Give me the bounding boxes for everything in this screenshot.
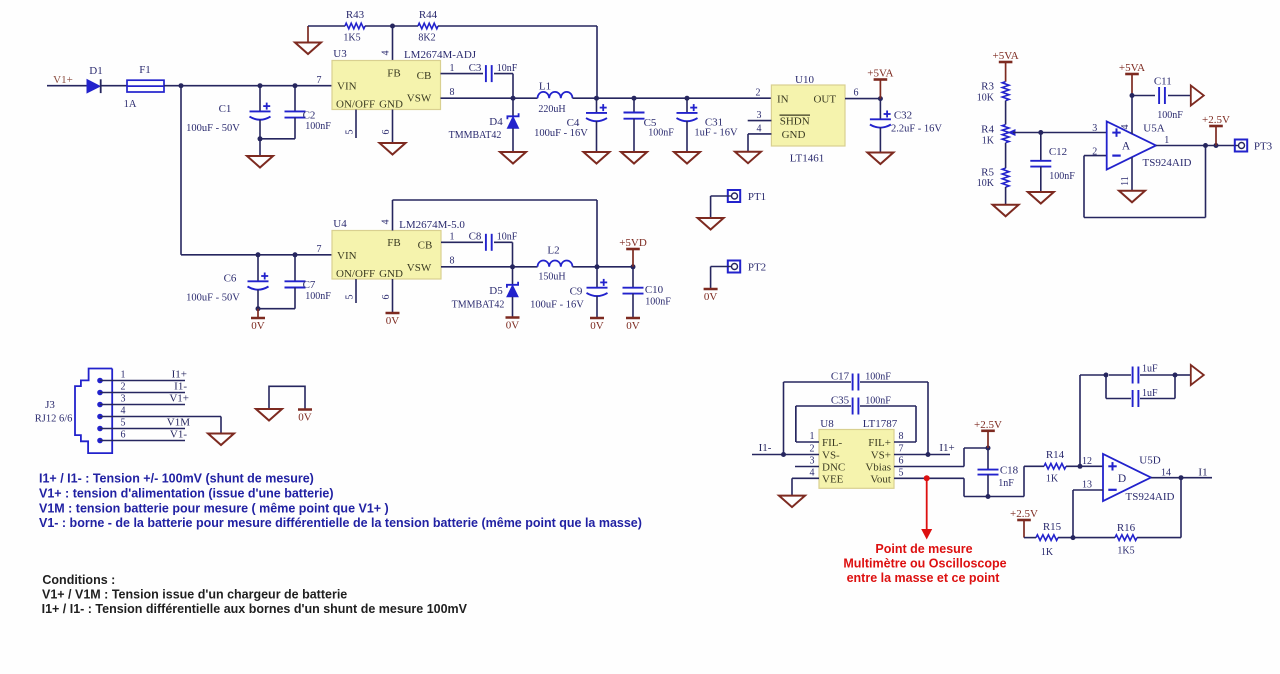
U3 pin6 stub	[381, 110, 393, 144]
svg-text:C32: C32	[894, 110, 912, 122]
node C5	[632, 96, 637, 101]
U5D pin13 wire	[1073, 480, 1103, 538]
U4 pin1 wire CB	[441, 232, 483, 243]
svg-text:D4: D4	[489, 116, 503, 128]
diode D1	[87, 65, 103, 93]
U5A pin2 wire	[1084, 147, 1107, 158]
wire PT1	[711, 196, 728, 218]
svg-text:R43: R43	[346, 9, 365, 21]
U4 pin5 stub	[345, 279, 357, 303]
power +2.5V R15	[1010, 508, 1038, 538]
svg-text:GND: GND	[782, 129, 806, 141]
capacitor C32	[870, 99, 943, 153]
port PT1	[728, 190, 766, 203]
svg-text:4: 4	[121, 406, 126, 417]
U4 pin8 wire VSW	[441, 256, 538, 267]
port PT2	[728, 261, 766, 274]
svg-text:F1: F1	[139, 64, 151, 76]
svg-text:100uF - 16V: 100uF - 16V	[534, 128, 588, 139]
ground D4	[500, 152, 526, 164]
power +5VA	[867, 68, 893, 99]
svg-text:RJ12 6/6: RJ12 6/6	[35, 414, 73, 425]
svg-text:C9: C9	[570, 286, 583, 298]
wire 1uF top right	[1140, 373, 1191, 378]
svg-text:C10: C10	[645, 284, 664, 296]
wire D1-F1	[101, 85, 127, 87]
wire R44-feedback	[438, 26, 597, 98]
U5D designator	[1139, 455, 1160, 467]
svg-text:150uH: 150uH	[538, 272, 565, 283]
U8 pin2 wire I1-	[752, 442, 819, 455]
power arrow C11	[1191, 86, 1204, 106]
resistor R44	[418, 9, 438, 44]
svg-text:+5VD: +5VD	[619, 237, 647, 249]
capacitor C12	[1030, 133, 1075, 193]
capacitor C17 loop	[784, 374, 929, 455]
svg-text:5: 5	[345, 295, 356, 300]
svg-text:1A: 1A	[124, 99, 137, 110]
U4 pin labels	[336, 237, 432, 280]
node D4	[511, 96, 516, 101]
svg-text:2: 2	[810, 444, 815, 455]
U5A feedback loop	[1084, 146, 1206, 218]
svg-text:entre la masse et ce point: entre la masse et ce point	[847, 571, 1001, 585]
node C2 top	[293, 83, 298, 88]
J3 pin 2 contact	[97, 390, 103, 396]
svg-text:U5D: U5D	[1139, 455, 1160, 467]
ground R5	[993, 205, 1019, 217]
node C9	[595, 264, 600, 269]
svg-text:V1+ : tension d'alimentation (: V1+ : tension d'alimentation (issue d'un…	[39, 486, 334, 500]
U8 pin labels right	[865, 437, 891, 485]
svg-text:PT2: PT2	[748, 262, 766, 274]
svg-text:R5: R5	[981, 167, 994, 179]
svg-text:Vout: Vout	[870, 473, 891, 485]
0V C9	[590, 318, 604, 332]
svg-text:FIL-: FIL-	[822, 437, 843, 449]
power +2.5V PT3	[1202, 114, 1230, 146]
text line V1M description	[39, 502, 389, 516]
node output U5A	[1203, 143, 1208, 148]
svg-text:Conditions :: Conditions :	[42, 573, 115, 587]
wire input V1+	[47, 85, 87, 87]
resistor R4 trimmer	[981, 124, 1015, 147]
svg-text:1uF - 16V: 1uF - 16V	[694, 128, 738, 139]
svg-text:LT1461: LT1461	[790, 153, 824, 165]
svg-text:L1: L1	[539, 81, 551, 93]
svg-text:U5A: U5A	[1143, 123, 1164, 135]
svg-text:8: 8	[450, 87, 455, 98]
U4 pin7 number	[317, 244, 322, 255]
wire to R14	[1024, 466, 1044, 496]
svg-text:4: 4	[381, 51, 392, 56]
svg-text:1K: 1K	[1041, 547, 1054, 558]
svg-text:FIL+: FIL+	[868, 437, 891, 449]
svg-text:14: 14	[1161, 468, 1171, 479]
power +5VA R3	[993, 50, 1019, 82]
svg-text:+5VA: +5VA	[1119, 62, 1145, 74]
svg-text:10K: 10K	[977, 178, 995, 189]
svg-text:GND: GND	[379, 99, 403, 111]
wire FB2 loop	[393, 200, 598, 267]
0V bracket label	[298, 410, 312, 424]
svg-text:VIN: VIN	[337, 250, 357, 262]
U5A part TS924AID	[1143, 157, 1192, 169]
U3 pin5 stub	[345, 110, 357, 139]
U5A designator	[1143, 123, 1164, 135]
svg-text:ON/OFF: ON/OFF	[336, 99, 375, 111]
C17 labels	[831, 371, 891, 383]
svg-text:VSW: VSW	[407, 93, 432, 105]
svg-text:5: 5	[121, 418, 126, 429]
wire node-R44	[393, 25, 419, 27]
node C4	[594, 96, 599, 101]
wire C6-C7 bottom	[256, 306, 296, 311]
ground U10	[735, 152, 761, 164]
svg-text:0V: 0V	[590, 320, 604, 332]
svg-text:LT1787: LT1787	[863, 418, 898, 430]
U4 designator	[333, 218, 347, 230]
node R15 R16	[1071, 535, 1076, 540]
svg-text:5: 5	[345, 130, 356, 135]
svg-text:100uF - 16V: 100uF - 16V	[530, 300, 584, 311]
U3 pin1 wire CB	[441, 63, 484, 74]
node C6 top	[256, 252, 261, 257]
svg-text:R16: R16	[1117, 522, 1136, 534]
U3 part LM2674M-ADJ	[404, 49, 477, 61]
svg-text:V1M : tension batterie pour me: V1M : tension batterie pour mesure ( mêm…	[39, 502, 389, 516]
ground C31	[674, 152, 700, 164]
U10 pin labels	[777, 94, 836, 141]
node C12	[1038, 130, 1043, 135]
power arrow 1uF	[1191, 365, 1204, 385]
C35 labels	[831, 395, 891, 407]
svg-text:6: 6	[121, 430, 126, 441]
text conditions line2	[42, 602, 468, 616]
op-amp U3 body	[332, 61, 441, 110]
svg-text:7: 7	[317, 75, 322, 86]
U10 pin4 wire	[748, 123, 771, 151]
svg-text:I1+ / I1- : Tension différenti: I1+ / I1- : Tension différentielle aux b…	[42, 602, 468, 616]
net label V1+	[53, 74, 73, 86]
svg-text:11: 11	[1120, 176, 1131, 186]
resistor R16	[1115, 522, 1137, 557]
wire feedback R16	[1137, 478, 1181, 538]
node pin2 C17	[781, 452, 786, 457]
capacitor C18	[978, 448, 1019, 497]
U4 pin6 stub	[381, 279, 393, 313]
J3 pin 6 contact	[97, 438, 103, 444]
svg-text:3: 3	[1092, 123, 1097, 134]
svg-text:PT1: PT1	[748, 191, 766, 203]
svg-text:C17: C17	[831, 371, 850, 383]
J3 designator	[35, 399, 73, 425]
resistor R3	[977, 81, 1009, 104]
node Vbias +2.5V	[986, 446, 991, 451]
J3 pin 4 contact	[97, 414, 103, 420]
capacitor C31	[677, 98, 739, 152]
svg-text:+5VA: +5VA	[993, 50, 1019, 62]
J3 pin 1 contact	[97, 378, 103, 384]
wire row2 VIN	[181, 254, 332, 256]
wire R4-R5	[1005, 143, 1007, 168]
svg-text:C12: C12	[1049, 146, 1067, 158]
svg-text:1uF: 1uF	[1142, 364, 1158, 375]
svg-text:CB: CB	[418, 240, 433, 252]
node feedback 1uF	[1078, 464, 1083, 469]
svg-text:12: 12	[1082, 456, 1092, 467]
svg-text:8: 8	[899, 431, 904, 442]
U5A pin11 wire	[1120, 157, 1132, 191]
svg-text:4: 4	[1120, 125, 1131, 130]
svg-text:C3: C3	[469, 62, 482, 74]
power +2.5V C18	[974, 419, 1002, 448]
ground J3 pin4	[208, 434, 234, 446]
svg-text:0V: 0V	[506, 320, 520, 332]
svg-text:+2.5V: +2.5V	[974, 419, 1002, 431]
svg-text:I1+: I1+	[939, 442, 954, 454]
svg-text:3: 3	[121, 394, 126, 405]
svg-text:1: 1	[450, 63, 455, 74]
svg-text:VS+: VS+	[871, 450, 891, 462]
svg-text:V1- : borne - de la batterie p: V1- : borne - de la batterie pour mesure…	[39, 516, 642, 530]
text entre la masse	[847, 571, 1001, 585]
regulator U4 body	[332, 231, 441, 280]
text multimetre	[843, 557, 1006, 571]
node +5VA out	[878, 96, 883, 101]
U8 designator	[820, 418, 834, 430]
ground C5	[621, 152, 647, 164]
wire R3-R4	[1005, 101, 1007, 125]
svg-text:FB: FB	[387, 237, 400, 249]
svg-text:1: 1	[1164, 135, 1169, 146]
wire FB2 pin4	[381, 200, 393, 231]
svg-text:U3: U3	[333, 48, 347, 60]
U5A output	[1156, 135, 1235, 146]
resistor R14	[1044, 449, 1066, 485]
ground bracket	[256, 409, 282, 421]
svg-text:I1: I1	[1198, 467, 1207, 479]
text conditions title	[42, 573, 115, 587]
diode D4 TMMBAT42	[449, 98, 519, 152]
svg-text:C1: C1	[219, 103, 232, 115]
ground C32	[867, 153, 893, 165]
svg-text:I1-: I1-	[759, 442, 772, 454]
svg-text:VS-: VS-	[822, 450, 840, 462]
svg-text:CB: CB	[417, 70, 432, 82]
svg-text:100uF - 50V: 100uF - 50V	[186, 123, 240, 134]
svg-text:100nF: 100nF	[645, 297, 671, 308]
J3 pin1 wire I1+	[100, 369, 187, 381]
0V D5	[506, 318, 520, 332]
U3 designator	[333, 48, 347, 60]
port PT3	[1235, 140, 1273, 153]
wire F1-VIN	[164, 85, 332, 87]
svg-text:U10: U10	[795, 74, 814, 86]
svg-text:TMMBAT42: TMMBAT42	[449, 130, 502, 141]
U5D part TS924AID	[1126, 491, 1175, 503]
svg-text:6: 6	[381, 130, 392, 135]
svg-text:TS924AID: TS924AID	[1126, 491, 1175, 503]
op-amp U5D body	[1103, 454, 1151, 501]
wire R43-node	[365, 25, 393, 27]
ic U8 body	[819, 430, 894, 489]
wire L2-C10	[573, 266, 634, 268]
0V C6	[251, 309, 265, 332]
wire 1uF top	[1080, 373, 1131, 378]
U8 pin labels left	[822, 437, 845, 485]
svg-text:7: 7	[317, 244, 322, 255]
J3 pin2 wire I1-	[100, 381, 187, 393]
resistor R15	[1036, 521, 1062, 558]
power +5VD	[619, 237, 647, 267]
wire R14 to pin12	[1066, 456, 1103, 467]
capacitor C6	[186, 255, 268, 309]
capacitor 1uF top	[1133, 364, 1158, 384]
U3 pin8 wire VSW	[441, 87, 538, 98]
svg-text:Multimètre ou Oscilloscope: Multimètre ou Oscilloscope	[843, 557, 1006, 571]
J3 pin3 wire V1+	[100, 393, 189, 405]
0V U4	[386, 313, 400, 327]
node +5VA C11	[1130, 93, 1135, 98]
node C1 top	[258, 83, 263, 88]
red arrow	[921, 478, 932, 539]
svg-text:C8: C8	[469, 231, 482, 243]
svg-text:4: 4	[810, 468, 815, 479]
wire 1uF vertical	[1079, 375, 1081, 466]
svg-text:TMMBAT42: TMMBAT42	[452, 300, 505, 311]
svg-text:10nF: 10nF	[497, 63, 518, 74]
U8 pin5 wire Vout	[894, 468, 1024, 497]
svg-text:ON/OFF: ON/OFF	[336, 268, 375, 280]
ground U3 pin6	[380, 143, 406, 155]
J3 pin6 wire V1-	[100, 429, 187, 441]
wire 0V bracket	[269, 386, 305, 409]
node input junction	[179, 83, 184, 88]
U5A pin3 number	[1092, 123, 1097, 134]
text line V1- description	[39, 516, 642, 530]
resistor R43	[343, 9, 365, 44]
J3 pin4 wire	[100, 406, 221, 434]
svg-text:VIN: VIN	[337, 81, 357, 93]
node pin7 C17	[926, 452, 931, 457]
svg-text:1K: 1K	[1046, 474, 1059, 485]
capacitor C7	[285, 255, 332, 309]
capacitor C4	[534, 98, 607, 152]
U10 part LT1461	[790, 153, 824, 165]
ground C12	[1028, 192, 1054, 204]
svg-text:1K5: 1K5	[1117, 546, 1134, 557]
svg-text:1: 1	[121, 370, 126, 381]
svg-text:2: 2	[756, 88, 761, 99]
svg-text:100uF - 50V: 100uF - 50V	[186, 293, 240, 304]
wire gnd-R43	[308, 25, 345, 27]
svg-text:0V: 0V	[251, 320, 265, 332]
capacitor C10	[623, 267, 672, 318]
ground R43	[295, 26, 321, 54]
svg-text:L2: L2	[547, 245, 559, 257]
ground C1	[247, 139, 273, 168]
U5A pin4 wire	[1120, 96, 1132, 134]
fuse F1	[124, 64, 164, 110]
capacitor C35 loop	[796, 398, 916, 443]
svg-text:100nF: 100nF	[865, 372, 891, 383]
J3 pin 5 contact	[97, 426, 103, 432]
svg-text:2: 2	[121, 382, 126, 393]
capacitor C3	[469, 62, 518, 82]
J3 pin5 wire V1M	[100, 417, 190, 429]
svg-text:6: 6	[899, 456, 904, 467]
svg-text:5: 5	[899, 468, 904, 479]
svg-text:LM2674M-5.0: LM2674M-5.0	[399, 219, 465, 231]
svg-text:V1-: V1-	[170, 429, 187, 441]
svg-text:6: 6	[854, 88, 859, 99]
svg-text:A: A	[1122, 141, 1131, 153]
U4 part LM2674M-5.0	[399, 219, 465, 231]
svg-text:PT3: PT3	[1254, 141, 1273, 153]
U10 pin6 wire	[845, 88, 880, 99]
svg-text:D5: D5	[489, 285, 503, 297]
svg-text:1K5: 1K5	[343, 33, 360, 44]
capacitor C1	[186, 86, 270, 139]
U3 pin 7 number	[317, 75, 322, 86]
svg-text:C7: C7	[303, 279, 316, 291]
svg-text:C2: C2	[303, 110, 316, 122]
svg-text:D1: D1	[89, 65, 102, 77]
ground C4	[584, 152, 610, 164]
U5D output pin14	[1151, 467, 1212, 479]
svg-text:220uH: 220uH	[538, 104, 565, 115]
U8 pin6 wire Vbias	[894, 448, 988, 467]
text point de mesure	[875, 542, 972, 556]
text line I1 description	[39, 472, 314, 486]
U10 designator	[795, 74, 814, 86]
svg-text:IN: IN	[777, 94, 789, 106]
wire C8 to VSW	[494, 242, 513, 266]
svg-text:SHDN: SHDN	[780, 116, 810, 128]
node FB top	[390, 24, 395, 29]
capacitor C2	[285, 86, 332, 139]
connector J3 body	[75, 369, 112, 454]
svg-text:LM2674M-ADJ: LM2674M-ADJ	[404, 49, 477, 61]
svg-text:0V: 0V	[704, 291, 718, 303]
svg-text:J3: J3	[45, 399, 55, 411]
svg-text:I1+: I1+	[172, 369, 187, 381]
svg-text:1K: 1K	[982, 136, 995, 147]
capacitor C5	[624, 98, 675, 152]
svg-text:R44: R44	[419, 9, 438, 21]
wire PT2	[711, 267, 728, 290]
node C10	[631, 264, 636, 269]
wire R16-R15	[1058, 537, 1115, 539]
svg-text:4: 4	[757, 123, 762, 134]
svg-text:8: 8	[450, 256, 455, 267]
svg-text:100nF: 100nF	[305, 291, 331, 302]
svg-text:3: 3	[757, 110, 762, 121]
svg-text:3: 3	[810, 456, 815, 467]
0V PT2	[704, 289, 718, 303]
svg-text:100nF: 100nF	[1157, 110, 1183, 121]
capacitor C9	[530, 267, 607, 318]
svg-text:C6: C6	[224, 273, 237, 285]
svg-text:1: 1	[810, 431, 815, 442]
svg-text:C35: C35	[831, 395, 850, 407]
svg-text:1: 1	[450, 232, 455, 243]
wire R5-gnd	[1005, 187, 1007, 205]
capacitor 1uF bottom loop	[1106, 375, 1175, 407]
regulator U10 body	[771, 85, 845, 146]
svg-text:0V: 0V	[386, 315, 400, 327]
